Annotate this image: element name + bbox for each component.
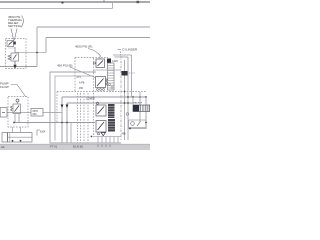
orifice blob on pipes: [122, 71, 128, 76]
node junction x37 y52.5: [36, 52, 38, 54]
svg-text:LOWER: LOWER: [86, 98, 95, 101]
enclosure dashed box pump group: [8, 97, 28, 128]
leader line to port relief: [70, 67, 95, 78]
wire tank bus y122.5: [14, 122, 95, 124]
wire work line y103: [67, 102, 133, 104]
valve A port circle: [94, 62, 96, 64]
valve D body: [96, 121, 106, 133]
label bracket right of cylinder: [37, 130, 40, 136]
wire pump valve stems: [15, 102, 19, 123]
valve A body (spool section): [96, 59, 105, 68]
boundary dash-dot cylinder line: [120, 56, 122, 140]
check valve arrow on x62: [61, 105, 64, 109]
check valve arrow on x67: [66, 105, 69, 109]
node cylinder port a: [12, 140, 14, 142]
solenoid valve V1 arrow: [8, 42, 13, 46]
wire V2 inlet stem: [14, 47, 16, 53]
enclosure dashed mid boundary: [57, 91, 147, 93]
valve D port circle: [98, 133, 100, 135]
pilot dashed drop x84: [83, 93, 85, 143]
valve D cartridge rungs: [108, 122, 115, 130]
cylinder piston: [7, 133, 9, 143]
node junction dot y66.5: [14, 65, 16, 67]
relief cartridge horizontal body: [133, 105, 150, 112]
svg-text:SETTING: SETTING: [8, 24, 22, 28]
svg-text:C125: C125: [112, 60, 118, 63]
node tick on top line: [62, 2, 64, 4]
wire drop x71: [70, 123, 72, 144]
relief cartridge spring hatch: [141, 105, 150, 112]
label box part number: [31, 109, 43, 117]
relief valve V2 arrow: [13, 55, 17, 60]
solenoid valve V1 coil block: [14, 42, 16, 45]
wire pump riser line y112.5 left: [7, 112, 31, 114]
valve B body (relief section): [96, 77, 106, 88]
wire mid link y70: [94, 69, 122, 71]
cylinder body: [2, 133, 32, 143]
valve A solenoid blob: [107, 59, 111, 64]
bottom right port circle: [131, 122, 135, 126]
node junction pipe y91.5: [124, 91, 126, 93]
pump valve arrow: [15, 106, 20, 112]
tank triangle under valve D: [101, 133, 106, 136]
node junction x91.5 y136.5: [91, 136, 93, 138]
valve A arrow: [98, 61, 104, 67]
valve D arrow: [98, 122, 105, 130]
port circle pump group: [16, 99, 19, 102]
svg-text:450: 450: [79, 87, 84, 90]
valve C cartridge rungs: [108, 107, 115, 117]
wire drop x140: [139, 92, 141, 122]
valve C spring cartridge (hatched): [108, 104, 115, 118]
svg-text:6104: 6104: [40, 131, 46, 134]
enclosure inner manifold box: [55, 76, 93, 141]
svg-text:P T A1: P T A1: [50, 146, 58, 149]
leader from pump note: [11, 85, 26, 97]
valve V1 pilot dashes: [9, 47, 17, 49]
svg-text:934: 934: [33, 113, 38, 116]
node junction x67 y122.5: [66, 122, 68, 124]
orifice side marks: [129, 72, 135, 74]
wire bottom bus y136.5: [93, 136, 121, 138]
wire bottom link y128.5: [128, 128, 146, 130]
leader dash-dot from cylinder label: [120, 52, 122, 57]
node junction pipe y97: [127, 96, 129, 98]
bottom right component box: [129, 120, 147, 128]
node junction x62 y122.5: [61, 122, 63, 124]
wire bottom stubs: [98, 137, 118, 144]
node stub at x104: [103, 0, 105, 2]
wire second return line: [0, 8, 113, 10]
enclosure dashed section boundary top: [75, 57, 108, 59]
pilot dashed drop x80.5: [80, 93, 82, 143]
wire valve A pilot stem: [99, 55, 101, 59]
wire drop x62: [61, 97, 63, 143]
pilot dashed drop x77.5: [77, 93, 79, 143]
bottom frame strip: [0, 145, 150, 151]
enclosure dashed mid boundary drop: [56, 92, 58, 123]
valve B spring: [106, 79, 108, 86]
wire riser joining return to top: [112, 2, 114, 9]
pump valve body: [13, 104, 21, 114]
wire vertical branch x37: [36, 27, 38, 67]
pilot dashed drop x88: [87, 93, 89, 143]
wire tank line y66.5: [0, 66, 37, 68]
wire pipe top link 2: [113, 54, 132, 56]
node junction x14 y122.5: [13, 122, 15, 124]
wire cylinder feed a: [12, 127, 14, 133]
valve C body: [96, 105, 106, 116]
node junction x146 y122.5: [145, 122, 147, 124]
svg-text:AA: AA: [1, 145, 5, 149]
label bottom port ticks: [98, 145, 110, 148]
node junction x124.5 y103: [124, 102, 126, 104]
relief cartridge dark plug: [133, 105, 139, 112]
spool ladder stack: [108, 63, 115, 90]
wire vertical branch x46: [45, 38, 47, 53]
node junction x140 y97: [139, 96, 141, 98]
enclosure dashed box valve group 1: [6, 39, 27, 69]
node junction x146 y97: [145, 96, 147, 98]
wire cylinder pipe 1: [124, 60, 126, 140]
wire pump riser line y112.5 right: [43, 112, 62, 114]
svg-text:.073: .073: [76, 76, 81, 79]
node cylinder port b: [20, 140, 22, 142]
valve B port circles: [97, 89, 99, 91]
valve D spring cartridge (hatched): [108, 119, 115, 132]
wire top supply line: [0, 1, 150, 3]
pilot dashed line x93.5: [93, 58, 95, 136]
bottom right arrow mark: [137, 122, 141, 127]
solenoid valve V1 body: [7, 41, 14, 47]
gauge box left edge: [0, 108, 7, 118]
valve C port circle: [96, 102, 98, 104]
bottom frame top edge: [0, 143, 150, 145]
wire drop x146: [145, 97, 147, 129]
wire cylinder pipe 3: [131, 55, 133, 97]
wire cylinder pipe 2: [127, 57, 129, 140]
spool ladder port circles: [109, 84, 111, 86]
svg-text:MAKEUP: MAKEUP: [133, 102, 143, 105]
port circle on pipe: [126, 113, 129, 116]
leader brace for note: [21, 16, 23, 28]
node junction x133 y97: [132, 96, 134, 98]
enclosure outer manifold box: [50, 72, 121, 143]
wire cross link y52.5: [15, 52, 46, 54]
wire stub x133: [132, 97, 134, 105]
spool ladder rungs: [108, 66, 115, 89]
gauge box mark: [2, 112, 5, 114]
svg-text:45B: 45B: [122, 133, 127, 136]
relief valve V2 body: [11, 53, 19, 61]
leader line to valve V2: [9, 29, 17, 45]
wire cylinder feed b: [20, 127, 22, 133]
wire V2 outlet stem: [14, 61, 16, 67]
leader curve to main relief: [88, 49, 101, 57]
wire work line y97: [62, 96, 146, 98]
svg-text:FLOW: FLOW: [0, 85, 9, 89]
cylinder rod: [8, 136, 33, 138]
pump valve spring: [11, 106, 13, 111]
wire drop x67: [66, 103, 68, 143]
svg-text:A PB: A PB: [79, 82, 85, 85]
enclosure dashed section boundary left: [74, 58, 76, 92]
valve B arrow: [97, 79, 104, 87]
node arrow into tank line: [13, 65, 16, 69]
wire line D horizontal: [46, 37, 150, 39]
svg-text:B1 A2 B2: B1 A2 B2: [73, 146, 84, 149]
wire manifold feed y72: [50, 71, 96, 73]
wire line C horizontal: [37, 26, 150, 28]
relief valve V2 spring: [8, 55, 11, 60]
valve C arrow: [98, 107, 105, 115]
leader dash before cylinder label: [118, 48, 122, 50]
wire pipe top link 1: [115, 56, 129, 58]
svg-text:CYLINDER: CYLINDER: [122, 48, 138, 52]
node junction x130 y128.5: [129, 128, 131, 130]
node tick right on top line: [137, 1, 140, 3]
svg-text:4500 PSI (R): 4500 PSI (R): [75, 45, 92, 49]
leader line to valve V1: [11, 29, 14, 40]
node junction x128 y103: [127, 102, 129, 104]
